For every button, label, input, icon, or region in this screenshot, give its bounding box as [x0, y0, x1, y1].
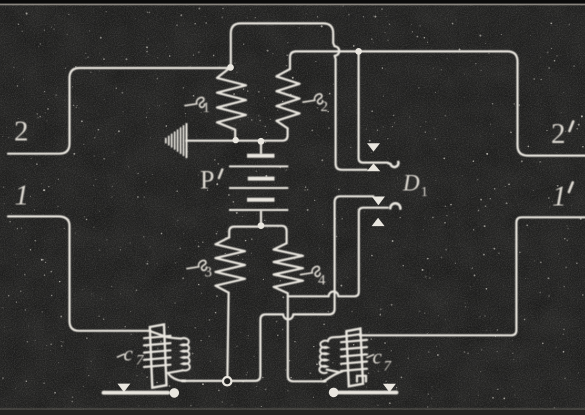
- right coil helix back turns (rounded zigzag): [319, 341, 328, 373]
- hook of D1 upper contact bar: [388, 162, 398, 167]
- left coil key stop (triangle down): [117, 384, 130, 393]
- junction node battery bottom: [258, 222, 265, 229]
- svg-text:3: 3: [205, 265, 213, 281]
- svg-text:1: 1: [421, 184, 428, 199]
- left coil core: [150, 324, 167, 387]
- right coil key stop (triangle down): [383, 384, 396, 392]
- junction node at e1 top: [227, 64, 234, 71]
- top border light line: [0, 4, 585, 6]
- svg-text:c: c: [373, 345, 383, 369]
- label e3: [187, 260, 207, 270]
- D1 lower armature tip (triangle down): [372, 197, 385, 206]
- battery plate long thin 3: [229, 209, 288, 211]
- right coil last turn and entry from bottom wire: [324, 370, 340, 382]
- resistor e3: [215, 237, 245, 292]
- left coil key knob: [170, 388, 180, 398]
- svg-text:2: 2: [14, 116, 29, 148]
- label e4: [301, 266, 321, 276]
- svg-text:c: c: [124, 342, 134, 366]
- resistor e2: [276, 69, 299, 128]
- label c7 right: [367, 355, 374, 358]
- junction node on 2' line: [355, 48, 362, 55]
- right coil key bar: [337, 391, 397, 395]
- left coil winding front turns: [144, 336, 171, 338]
- wire top loop from node A over to D1 upper armature: [231, 23, 367, 169]
- svg-text:1: 1: [203, 100, 211, 116]
- left coil helix back turns (rounded zigzag): [181, 338, 190, 370]
- right coil first turn across core to exit: [328, 334, 361, 341]
- resistor e1: [217, 67, 246, 137]
- battery plate long thin 2: [229, 187, 288, 189]
- top border black strip: [0, 0, 585, 4]
- battery P' plates: [229, 156, 288, 210]
- earth (hatched wedge) left of battery: [166, 123, 187, 158]
- wire D1 lower contact bar to e4 bottom: [288, 208, 388, 297]
- wire battery bottom node to e3 top: [229, 227, 258, 238]
- battery bottom lead: [260, 211, 262, 222]
- junction node e1 bottom: [233, 137, 239, 143]
- right coil core: [346, 329, 363, 387]
- wire terminal 2 lead-in: [8, 68, 228, 154]
- battery plate long thin 1: [229, 165, 288, 167]
- label e1: [185, 97, 205, 107]
- D1 upper armature tip (triangle up): [367, 163, 381, 171]
- wire node B down to D1 upper contact bar: [359, 51, 388, 162]
- D1 lower floating contact point (triangle up): [372, 218, 385, 226]
- wire e2 top to terminal 2': [290, 51, 585, 155]
- D1 upper floating contact point (triangle down): [367, 143, 380, 151]
- left coil c7: [104, 324, 190, 392]
- right coil winding front turns: [341, 340, 367, 342]
- wire D1 lower contact arm (down to junction with e3/coil line): [182, 196, 373, 381]
- right coil armature notch: [357, 376, 366, 382]
- svg-text:D: D: [402, 171, 420, 196]
- svg-text:P: P: [200, 166, 214, 195]
- wire e4 bottom down to right coil: [288, 296, 326, 381]
- hook of D1 lower contact bar: [390, 203, 400, 208]
- left coil last turn and exit to bottom wire: [168, 370, 185, 381]
- left coil first turn across core: [150, 331, 181, 338]
- right coil key knob: [329, 388, 339, 398]
- open terminal ring on bottom wire: [223, 377, 231, 385]
- battery plate short thick 3: [247, 198, 275, 202]
- svg-text:4: 4: [318, 273, 326, 289]
- label e2: [303, 94, 323, 104]
- resistor e4: [274, 243, 303, 296]
- battery top lead: [260, 141, 262, 153]
- wire right coil top to terminal 1': [360, 217, 585, 335]
- wire terminal 1 lead-in: [8, 216, 150, 330]
- battery plate short thick 1: [247, 154, 275, 158]
- svg-text:2: 2: [551, 118, 566, 150]
- junction node battery top: [258, 138, 265, 145]
- right coil c7: [319, 329, 396, 393]
- battery plate short thick 2: [248, 177, 275, 181]
- svg-text:1: 1: [552, 181, 567, 213]
- wire battery bottom node to e4 top: [264, 226, 287, 244]
- wire earth to battery top / resistor bottoms: [187, 128, 288, 140]
- svg-text:1: 1: [15, 180, 30, 212]
- left coil key bar: [104, 391, 169, 395]
- svg-text:2: 2: [321, 99, 329, 115]
- label c7 left: [118, 354, 125, 357]
- bottom border light band: [0, 408, 585, 410]
- wire e3 bottom lead: [227, 293, 228, 377]
